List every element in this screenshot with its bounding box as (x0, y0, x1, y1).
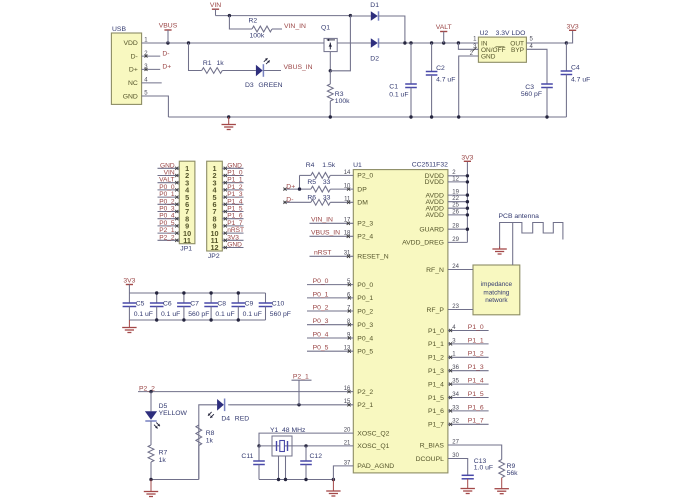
svg-text:RED: RED (235, 416, 249, 423)
svg-text:100k: 100k (335, 98, 350, 105)
svg-text:3V3: 3V3 (227, 234, 239, 241)
svg-text:56k: 56k (507, 470, 519, 477)
svg-text:D-: D- (131, 53, 138, 60)
svg-text:matching: matching (483, 289, 509, 296)
svg-text:P0_0: P0_0 (159, 184, 175, 191)
svg-text:P1_6: P1_6 (468, 404, 484, 411)
svg-text:JP1: JP1 (180, 246, 192, 253)
svg-text:R9: R9 (507, 463, 516, 470)
svg-text:D5: D5 (159, 403, 168, 410)
svg-text:1k: 1k (159, 457, 167, 464)
svg-text:3V3: 3V3 (461, 154, 473, 161)
svg-text:R8: R8 (206, 430, 215, 437)
svg-text:D-: D- (286, 196, 293, 203)
svg-text:P1_2: P1_2 (227, 184, 243, 191)
svg-text:PAD_AGND: PAD_AGND (357, 463, 394, 470)
svg-text:P1_3: P1_3 (227, 191, 243, 198)
svg-text:U1: U1 (353, 162, 362, 169)
svg-text:560 pF: 560 pF (188, 311, 209, 318)
svg-text:DM: DM (357, 200, 368, 207)
svg-text:P2_2: P2_2 (159, 234, 175, 241)
svg-text:USB: USB (112, 26, 126, 33)
svg-text:P1_6: P1_6 (227, 213, 243, 220)
svg-text:4.7 uF: 4.7 uF (571, 77, 590, 84)
svg-text:R_BIAS: R_BIAS (420, 442, 445, 449)
svg-text:1.5k: 1.5k (322, 162, 335, 169)
svg-text:3V3: 3V3 (567, 23, 579, 30)
svg-text:U2: U2 (480, 30, 489, 37)
svg-text:560 pF: 560 pF (521, 91, 542, 98)
svg-text:AVDD: AVDD (426, 212, 444, 219)
svg-text:P1_1: P1_1 (468, 337, 484, 344)
svg-text:GND: GND (481, 54, 496, 61)
svg-text:R7: R7 (159, 450, 168, 457)
svg-text:0.1 uF: 0.1 uF (389, 91, 408, 98)
svg-text:P2_1: P2_1 (357, 402, 373, 409)
svg-text:VALT: VALT (436, 24, 452, 31)
svg-text:VIN: VIN (164, 170, 175, 177)
svg-text:11: 11 (183, 236, 191, 245)
svg-text:0.1 uF: 0.1 uF (161, 311, 180, 318)
svg-text:0.1 uF: 0.1 uF (215, 311, 234, 318)
svg-text:D3: D3 (245, 82, 254, 89)
svg-text:P1_2: P1_2 (468, 351, 484, 358)
svg-text:VIN_IN: VIN_IN (311, 216, 333, 223)
svg-text:Q1: Q1 (321, 24, 330, 31)
svg-text:DCOUPL: DCOUPL (416, 456, 445, 463)
svg-text:P2_1: P2_1 (159, 227, 175, 234)
svg-text:PCB antenna: PCB antenna (499, 213, 540, 220)
svg-text:P0_1: P0_1 (357, 295, 373, 302)
svg-text:0.1 uF: 0.1 uF (243, 311, 262, 318)
svg-text:DVDD: DVDD (425, 179, 444, 186)
svg-text:P0_3: P0_3 (159, 206, 175, 213)
svg-text:D+: D+ (162, 64, 171, 71)
svg-text:AVDD_DREG: AVDD_DREG (402, 240, 444, 247)
svg-text:R6: R6 (307, 194, 316, 201)
svg-text:P1_5: P1_5 (468, 391, 484, 398)
svg-text:P1_4: P1_4 (428, 381, 444, 388)
svg-text:R2: R2 (249, 18, 258, 25)
svg-text:P1_6: P1_6 (428, 408, 444, 415)
svg-text:nRST: nRST (314, 249, 331, 256)
svg-text:R1: R1 (203, 60, 212, 67)
svg-text:P1_5: P1_5 (428, 395, 444, 402)
svg-text:33: 33 (323, 194, 331, 201)
svg-text:P0_4: P0_4 (159, 213, 175, 220)
svg-text:YELLOW: YELLOW (159, 410, 188, 417)
svg-text:VBUS_IN: VBUS_IN (284, 64, 313, 71)
svg-text:nRST: nRST (227, 227, 244, 234)
svg-text:C2: C2 (436, 65, 445, 72)
svg-text:P1_5: P1_5 (227, 206, 243, 213)
svg-text:VBUS_IN: VBUS_IN (311, 229, 340, 236)
svg-text:P1_0: P1_0 (227, 170, 243, 177)
svg-text:RF_N: RF_N (426, 267, 444, 274)
svg-text:C4: C4 (571, 64, 580, 71)
svg-text:R4: R4 (306, 162, 315, 169)
svg-text:4.7 uF: 4.7 uF (436, 77, 455, 84)
svg-text:P1_3: P1_3 (468, 364, 484, 371)
svg-text:VDD: VDD (123, 40, 137, 47)
svg-text:GND: GND (227, 242, 242, 249)
svg-text:C6: C6 (163, 301, 172, 308)
svg-text:C12: C12 (310, 453, 323, 460)
svg-text:P2_3: P2_3 (357, 221, 373, 228)
svg-text:C1: C1 (389, 83, 398, 90)
svg-text:D1: D1 (370, 2, 379, 9)
svg-text:P2_2: P2_2 (357, 389, 373, 396)
svg-text:VIN: VIN (210, 2, 221, 9)
svg-text:GREEN: GREEN (258, 82, 282, 89)
svg-text:P0_5: P0_5 (159, 220, 175, 227)
svg-text:GND: GND (227, 162, 242, 169)
svg-text:GND: GND (160, 162, 175, 169)
svg-text:1k: 1k (217, 60, 225, 67)
svg-text:P0_1: P0_1 (313, 291, 329, 298)
svg-text:P1_2: P1_2 (428, 355, 444, 362)
svg-text:D+: D+ (286, 183, 295, 190)
svg-text:XOSC_Q2: XOSC_Q2 (357, 430, 389, 437)
svg-text:C5: C5 (136, 301, 145, 308)
svg-text:P0_1: P0_1 (159, 191, 175, 198)
svg-text:P2_0: P2_0 (357, 173, 373, 180)
svg-text:D-: D- (162, 50, 169, 57)
svg-text:C10: C10 (272, 301, 285, 308)
svg-text:1k: 1k (206, 438, 214, 445)
svg-text:P1_7: P1_7 (428, 422, 444, 429)
svg-text:JP2: JP2 (208, 253, 220, 260)
svg-text:P0_5: P0_5 (313, 345, 329, 352)
svg-text:P0_4: P0_4 (357, 335, 373, 342)
svg-text:P1_1: P1_1 (428, 341, 444, 348)
svg-text:VIN_IN: VIN_IN (284, 23, 306, 30)
svg-text:0.1 uF: 0.1 uF (134, 311, 153, 318)
svg-text:CC2511F32: CC2511F32 (412, 161, 448, 168)
svg-text:P1_1: P1_1 (227, 177, 243, 184)
svg-text:R5: R5 (307, 179, 316, 186)
svg-text:D4: D4 (221, 416, 230, 423)
svg-text:100k: 100k (250, 33, 265, 40)
svg-text:P1_0: P1_0 (468, 324, 484, 331)
svg-text:33: 33 (323, 179, 331, 186)
svg-text:P1_4: P1_4 (227, 198, 243, 205)
svg-text:P0_4: P0_4 (313, 331, 329, 338)
svg-text:P0_0: P0_0 (357, 282, 373, 289)
svg-text:C9: C9 (245, 301, 254, 308)
svg-text:3.3V LDO: 3.3V LDO (496, 30, 526, 37)
svg-text:GND: GND (123, 93, 138, 100)
svg-text:P0_3: P0_3 (313, 318, 329, 325)
svg-text:P0_2: P0_2 (357, 308, 373, 315)
svg-text:P0_2: P0_2 (313, 304, 329, 311)
svg-text:P1_0: P1_0 (428, 328, 444, 335)
svg-text:D2: D2 (370, 55, 379, 62)
svg-text:12: 12 (210, 243, 218, 252)
svg-text:P1_4: P1_4 (468, 378, 484, 385)
svg-text:P2_1: P2_1 (293, 373, 309, 380)
svg-text:C7: C7 (190, 301, 199, 308)
svg-text:3V3: 3V3 (123, 278, 135, 285)
svg-text:C11: C11 (241, 453, 253, 460)
svg-text:GUARD: GUARD (419, 227, 444, 234)
svg-text:impedance: impedance (481, 281, 513, 288)
svg-text:VALT: VALT (159, 177, 175, 184)
svg-text:C8: C8 (217, 301, 226, 308)
svg-text:NC: NC (128, 80, 138, 87)
svg-text:P0_5: P0_5 (357, 349, 373, 356)
svg-text:VBUS: VBUS (159, 23, 178, 30)
svg-text:P0_3: P0_3 (357, 322, 373, 329)
svg-text:P0_2: P0_2 (159, 198, 175, 205)
svg-text:RF_P: RF_P (427, 307, 445, 314)
svg-text:P1_7: P1_7 (227, 220, 243, 227)
svg-text:P1_3: P1_3 (428, 368, 444, 375)
svg-text:RESET_N: RESET_N (357, 254, 388, 261)
svg-text:C3: C3 (525, 84, 534, 91)
svg-text:XOSC_Q1: XOSC_Q1 (357, 443, 389, 450)
svg-text:network: network (485, 297, 508, 304)
svg-text:BYP: BYP (511, 47, 524, 54)
svg-text:1.0 uF: 1.0 uF (474, 465, 493, 472)
svg-text:P2_4: P2_4 (357, 234, 373, 241)
svg-text:P0_0: P0_0 (313, 278, 329, 285)
svg-text:D+: D+ (129, 67, 138, 74)
svg-text:P1_7: P1_7 (468, 418, 484, 425)
svg-text:DP: DP (357, 186, 367, 193)
svg-text:560 pF: 560 pF (270, 311, 291, 318)
